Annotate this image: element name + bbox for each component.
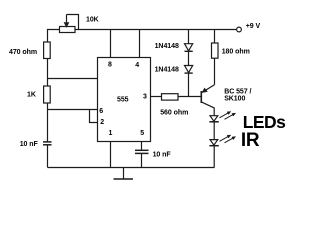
svg-text:1: 1	[109, 130, 113, 137]
wire: 560 ohm to transistor base	[178, 96, 201, 98]
svg-text:470 ohm: 470 ohm	[9, 49, 37, 56]
capacitor 10nF left	[43, 142, 52, 168]
svg-text:SK100: SK100	[224, 95, 245, 102]
wire: between LEDs	[213, 122, 215, 140]
svg-text:8: 8	[108, 62, 112, 69]
diode D2 1N4148	[185, 66, 193, 74]
potentiometer 10K	[60, 15, 79, 33]
diode D1 1N4148	[185, 44, 193, 52]
op-amp/timer U1 555 box	[98, 58, 151, 142]
wire: pin 3 to 560 ohm	[151, 96, 162, 98]
wire: pot left terminal down to 470 ohm	[48, 30, 60, 43]
svg-text:IR: IR	[241, 130, 260, 151]
wire: rail to pin 8	[110, 30, 112, 58]
svg-text:10 nF: 10 nF	[153, 152, 172, 159]
wire: 1K down to capacitor	[47, 103, 49, 142]
svg-text:10 nF: 10 nF	[20, 141, 39, 148]
svg-text:1K: 1K	[27, 92, 36, 99]
wire: pin 1 to ground rail	[110, 142, 112, 168]
svg-text:6: 6	[99, 108, 103, 115]
svg-text:1N4148: 1N4148	[155, 43, 179, 50]
wire: junction to pin 7	[48, 78, 98, 80]
wire: junction to pin 6	[48, 109, 98, 111]
svg-text:1N4148: 1N4148	[155, 66, 179, 73]
svg-text:10K: 10K	[86, 17, 99, 24]
wire: rail down to 180 ohm	[214, 30, 216, 44]
wire: top +9V rail	[75, 29, 236, 31]
+9V terminal	[237, 27, 242, 32]
wire: bottom ground rail	[48, 167, 215, 169]
wire: pin 5 to capacitor	[141, 142, 143, 151]
ground	[114, 167, 134, 179]
svg-text:5: 5	[140, 130, 144, 137]
resistor 560 ohm	[162, 94, 179, 100]
resistor 180 ohm	[212, 43, 219, 58]
LED D4 IR	[209, 135, 235, 146]
wire: between diodes	[188, 51, 190, 65]
LED D3	[209, 112, 235, 122]
wire: jog to pin 2	[90, 110, 98, 123]
wire: D2 to base wire junction	[188, 73, 190, 96]
svg-text:3: 3	[143, 93, 147, 100]
wire: LED chain to ground rail	[213, 146, 215, 168]
svg-text:4: 4	[135, 62, 139, 69]
svg-text:555: 555	[117, 97, 129, 104]
wire: 180 ohm to emitter	[214, 58, 216, 84]
resistor 470 ohm	[44, 42, 51, 59]
wire: rail to pin 4	[139, 30, 141, 58]
wire: rail down to diode D1	[188, 30, 190, 44]
wire: 470 ohm to 1K	[47, 59, 49, 87]
svg-text:2: 2	[100, 119, 104, 126]
svg-text:+9 V: +9 V	[246, 23, 261, 30]
capacitor 10nF right	[135, 150, 149, 167]
transistor Q1 BC557/SK100	[201, 85, 214, 116]
resistor 1K	[44, 86, 51, 103]
svg-text:180 ohm: 180 ohm	[222, 49, 250, 56]
svg-text:560 ohm: 560 ohm	[160, 109, 188, 116]
